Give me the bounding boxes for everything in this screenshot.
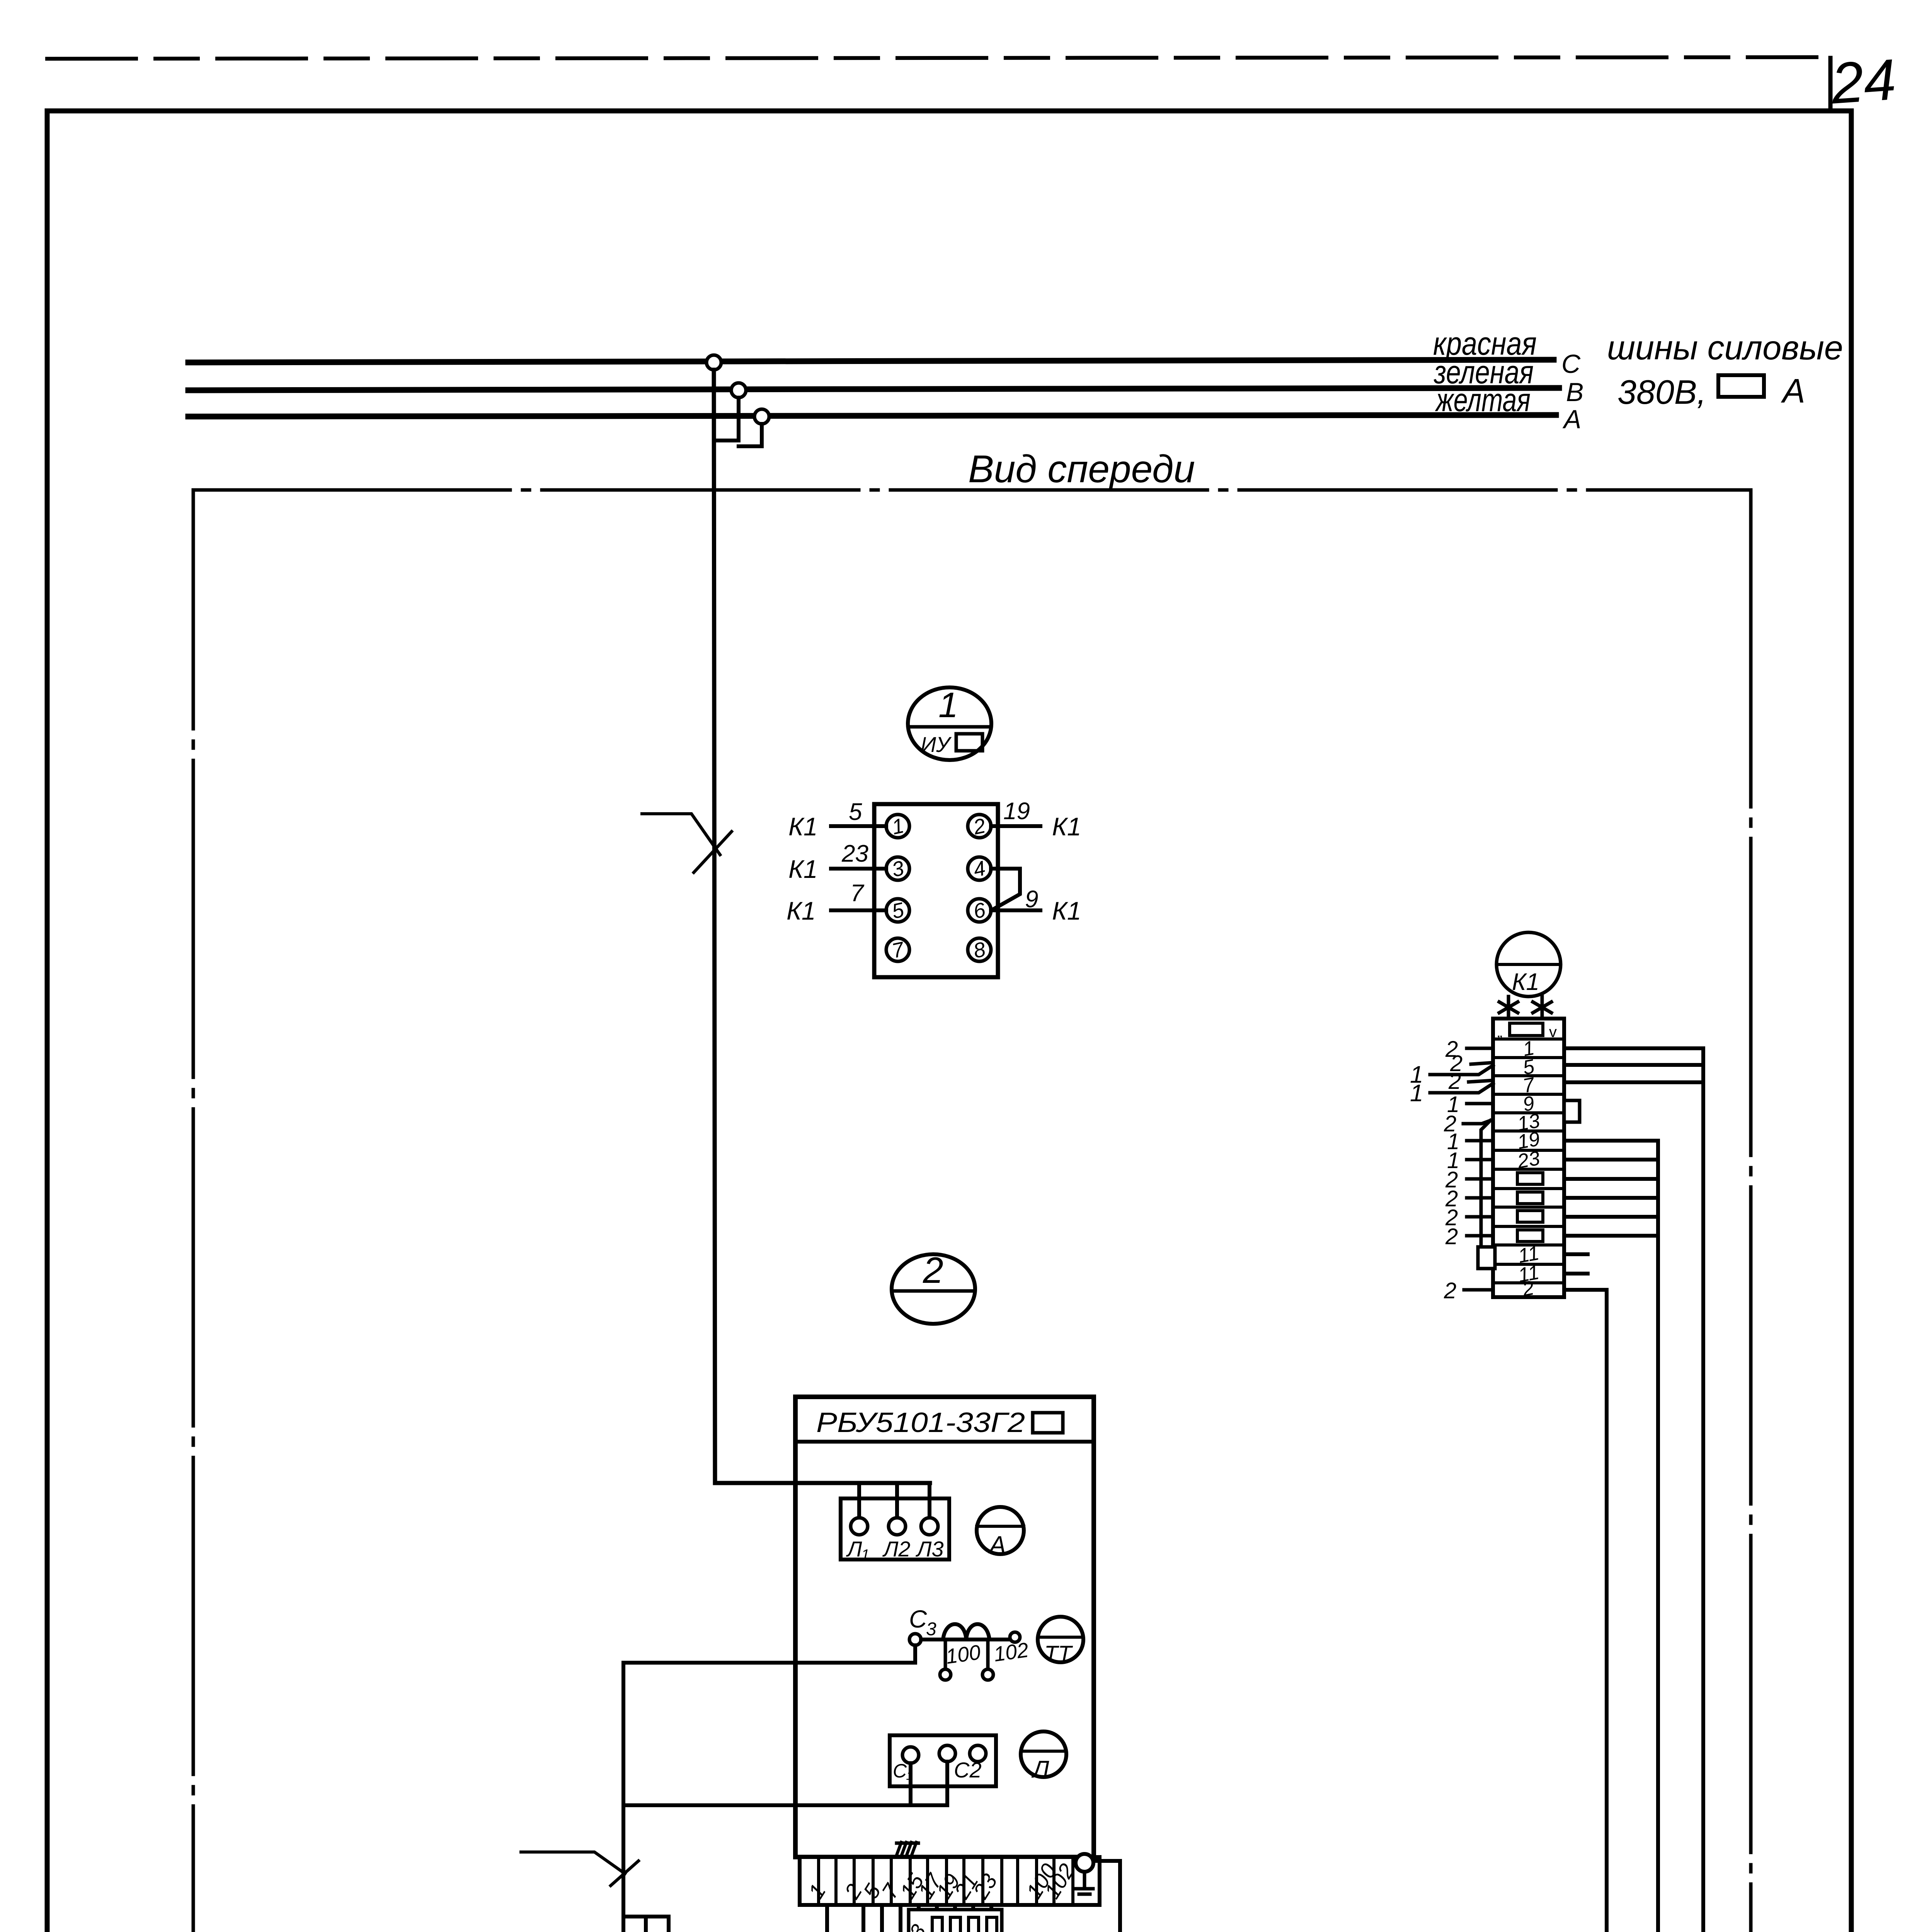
leader to demontage mark on capacitor feeder — [521, 1852, 625, 1874]
wire 2 to K1 strip — [1467, 1234, 1493, 1238]
svg-text:24: 24 — [1829, 47, 1898, 116]
wire 2 to K1 strip — [1463, 1120, 1492, 1124]
sheet frame right edge — [1849, 111, 1854, 1932]
svg-text:А: А — [1562, 405, 1581, 434]
wire ground terminal to null bus — [1093, 1861, 1120, 1932]
svg-text:К1: К1 — [787, 896, 816, 925]
demontage hatch mark above terminal 15 — [897, 1842, 918, 1845]
terminal strip K1 — [1493, 1019, 1564, 1297]
strip header marks — [1510, 1023, 1543, 1036]
svg-text:К1: К1 — [1512, 969, 1539, 995]
svg-text:шины силовые: шины силовые — [1607, 328, 1843, 367]
wire pin 2 to K1-19 — [991, 824, 1040, 828]
svg-text:102: 102 — [992, 1638, 1030, 1666]
jumper pin 4 to pin 6 — [991, 869, 1020, 909]
RBU5101-33G2 unit outline — [795, 1397, 1094, 1857]
svg-text:7: 7 — [850, 880, 865, 906]
panel outline (chain line), front view boundary — [193, 490, 1751, 1932]
wire 1 to K1 strip — [1467, 1139, 1493, 1143]
svg-text:2: 2 — [1445, 1224, 1458, 1249]
svg-text:5: 5 — [849, 799, 862, 825]
bus phase C (red) — [188, 360, 1554, 362]
svg-text:К1: К1 — [788, 855, 818, 883]
sheet number cell divider — [1828, 58, 1833, 111]
wire spare d — [1564, 1234, 1658, 1238]
wire drop to terminal — [928, 1483, 931, 1518]
svg-text:2: 2 — [1448, 1069, 1461, 1094]
wire: drop from bus A tap — [739, 424, 762, 446]
connector block of device 1 — [874, 804, 998, 977]
svg-text:Л3: Л3 — [916, 1537, 944, 1561]
wire terminal 2 to null bus — [1543, 1290, 1607, 1932]
svg-text:23: 23 — [841, 840, 868, 867]
svg-text:1: 1 — [1410, 1080, 1423, 1107]
wire 2 to K1 strip — [1469, 1080, 1493, 1082]
wire 2 to K1 strip — [1471, 1063, 1493, 1064]
additional terminal block 13 below strip — [909, 1910, 1002, 1932]
svg-text:желтая: желтая — [1435, 382, 1531, 418]
svg-text:v: v — [1549, 1024, 1557, 1041]
demontage X mark on feeder wire — [694, 832, 732, 872]
wire drop to terminal — [857, 1483, 861, 1518]
spare terminal cell — [1517, 1192, 1543, 1204]
spare terminal cell — [1517, 1230, 1543, 1242]
stub terminal 11 — [1564, 1252, 1588, 1256]
RBU bottom terminal strip — [800, 1857, 1100, 1905]
svg-text:Л₁: Л₁ — [846, 1537, 869, 1561]
position circle 2 (RBU unit) — [892, 1254, 975, 1324]
wire spare c — [1564, 1215, 1658, 1219]
svg-text:100: 100 — [944, 1641, 982, 1668]
pin 4 of connector — [968, 857, 991, 880]
wire from C3 down to capacitor block — [621, 1663, 625, 1932]
svg-text:380В,: 380В, — [1617, 373, 1706, 411]
jumper box terminals 9-13 right side — [1564, 1100, 1580, 1122]
svg-text:А: А — [988, 1531, 1006, 1559]
bus phase A (yellow) — [188, 415, 1556, 417]
sheet frame left edge — [45, 111, 50, 1932]
ammeter A — [977, 1507, 1024, 1554]
pin 7 of connector — [886, 938, 909, 961]
svg-text:2: 2 — [923, 1250, 943, 1291]
wire spare b — [1564, 1196, 1658, 1200]
wire terminal 5 — [1564, 1063, 1703, 1067]
node: tap on bus C — [707, 355, 721, 370]
terminal box C1 C2 — [890, 1735, 996, 1786]
wires C1 C2 to capacitor block — [909, 1763, 913, 1805]
pin 6 of connector — [968, 899, 991, 922]
stub terminal 11b — [1564, 1272, 1588, 1276]
wire 2 to K1 strip — [1464, 1288, 1493, 1292]
svg-text:9: 9 — [1025, 886, 1038, 913]
wire 1 to K1 strip — [1430, 1083, 1493, 1093]
wire 2 to K1 strip — [1467, 1047, 1493, 1050]
feed stubs into capacitor cells — [623, 1917, 669, 1932]
wire 1 to K1 strip — [1467, 1158, 1493, 1162]
wire drop to terminal — [895, 1483, 899, 1518]
additional blocks asterisks above strip — [1507, 997, 1510, 1018]
node: tap on bus A — [754, 409, 769, 424]
node: tap on bus B — [731, 383, 746, 398]
wire 2 to K1 strip — [1467, 1215, 1493, 1219]
wire pin 6 to K1-9 — [991, 908, 1040, 912]
svg-text:ИУ: ИУ — [921, 732, 952, 757]
svg-text:3: 3 — [926, 1619, 936, 1639]
wire K1-5 to pin 1 — [831, 824, 886, 828]
wires from strip terminals down — [825, 1905, 829, 1932]
svg-text:ТТ: ТТ — [1044, 1641, 1073, 1667]
wire bundle terminal 1 to junction box — [1564, 1048, 1703, 1932]
wire: main feeder drop from bus C to RBU — [714, 370, 930, 1483]
spare terminal cell — [1517, 1173, 1543, 1184]
meter TT — [1038, 1617, 1083, 1662]
svg-text:23: 23 — [1515, 1147, 1542, 1173]
ground terminal of strip — [1076, 1854, 1093, 1872]
svg-text:РБУ5101-33Г2: РБУ5101-33Г2 — [816, 1407, 1025, 1438]
wire C3 to capacitor block — [623, 1645, 915, 1663]
wire K1-7 to pin 5 — [831, 908, 886, 912]
pin 2 of connector — [968, 815, 991, 838]
svg-text:19: 19 — [1003, 798, 1030, 825]
wire terminal 7 — [1564, 1080, 1703, 1084]
wire bundle terminal 19 to relay panel — [1564, 1141, 1658, 1932]
pin 1 of connector — [886, 815, 909, 838]
panel outline corner ticks — [193, 490, 1751, 1932]
svg-text:С: С — [909, 1605, 927, 1633]
svg-text:С: С — [1561, 349, 1581, 379]
wire spare a — [1564, 1177, 1658, 1181]
top dashed separator line — [47, 57, 1817, 59]
svg-text:А: А — [1781, 372, 1805, 410]
svg-text:К1: К1 — [1052, 896, 1081, 925]
pin 3 of connector — [886, 857, 909, 880]
pin 8 of connector — [968, 938, 991, 961]
svg-text:„: „ — [1497, 1024, 1502, 1041]
svg-text:К1: К1 — [788, 812, 818, 841]
demontage X mark — [611, 1861, 638, 1886]
position circle 1 (ИУ device) — [908, 687, 991, 760]
wire 2 to K1 strip — [1467, 1177, 1493, 1181]
sheet frame top edge — [47, 109, 1851, 114]
pin 5 of connector — [886, 899, 909, 922]
wire 1 to K1 strip — [1467, 1102, 1493, 1105]
wire 1 to K1 strip — [1430, 1065, 1493, 1075]
svg-text:Вид спереди: Вид спереди — [968, 447, 1195, 491]
svg-text:В: В — [1566, 378, 1583, 407]
wire K1-23 to pin 3 — [831, 867, 886, 871]
spare terminal cell — [1517, 1211, 1543, 1222]
svg-text:Л: Л — [1031, 1756, 1049, 1783]
leader line to demontage mark on feeder — [642, 814, 720, 855]
meter L — [1021, 1731, 1066, 1777]
external jumper from terminal 13 to 11/11 — [1481, 1121, 1490, 1247]
legend wire-size rectangle symbol — [1718, 375, 1764, 397]
svg-text:Л2: Л2 — [882, 1537, 911, 1561]
wire: drop from bus B tap — [715, 398, 739, 440]
position circle K1 (relay terminal strip) — [1496, 932, 1561, 997]
input terminal box L1 L2 L3 — [841, 1498, 949, 1560]
svg-text:1: 1 — [938, 685, 958, 725]
svg-text:2: 2 — [1444, 1278, 1456, 1303]
wire terminal 23 — [1564, 1158, 1658, 1162]
svg-text:С2: С2 — [954, 1758, 982, 1782]
bus phase B (green) — [188, 388, 1559, 390]
svg-text:К1: К1 — [1052, 812, 1081, 841]
wire 2 to K1 strip — [1467, 1196, 1493, 1200]
